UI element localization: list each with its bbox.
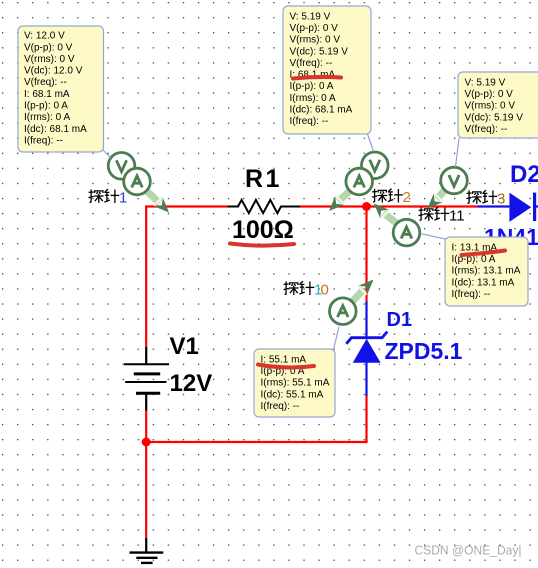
probe 2 V circle <box>362 152 389 179</box>
ground <box>130 538 164 563</box>
measurement box 3 (probe 3 readout) <box>458 72 538 138</box>
svg-text:R1: R1 <box>245 165 282 193</box>
probe 11 label 探针11 <box>419 207 465 224</box>
wire: middle vertical branch (junction down to D1) red part <box>365 205 367 301</box>
svg-text:I(rms): 0 A: I(rms): 0 A <box>290 93 336 104</box>
callout line box4 to probe11 <box>422 234 446 239</box>
measurement box 5 (probe 10 readout) <box>254 349 335 417</box>
probe 2 A circle <box>346 168 373 195</box>
red marker underline (100Ω) <box>230 244 294 246</box>
red marker underline (I: 55.1 mA) <box>258 365 314 368</box>
callout line box5 to probe10 <box>334 327 340 350</box>
battery V1 <box>124 347 169 411</box>
svg-text:I(rms): 13.1 mA: I(rms): 13.1 mA <box>452 266 521 277</box>
svg-text:V(dc): 5.19 V: V(dc): 5.19 V <box>465 112 524 123</box>
svg-text:V(freq): --: V(freq): -- <box>24 77 67 88</box>
svg-text:V(rms): 0 V: V(rms): 0 V <box>290 35 341 46</box>
svg-text:V(p-p): 0 V: V(p-p): 0 V <box>24 42 73 53</box>
D1 cathode bar with zener bends <box>346 332 387 344</box>
svg-text:I(rms): 55.1 mA: I(rms): 55.1 mA <box>261 378 330 389</box>
callout line box3 to probe3 <box>456 138 460 167</box>
svg-text:2: 2 <box>403 189 411 206</box>
svg-text:I(dc): 13.1 mA: I(dc): 13.1 mA <box>452 277 515 288</box>
svg-text:11: 11 <box>449 208 465 225</box>
wire: left vertical rail (top corner down to V1 +) <box>145 205 147 347</box>
svg-text:D2: D2 <box>510 161 538 188</box>
probe 1 V circle <box>108 153 135 180</box>
red marker underline (I: 13.1 mA) <box>462 251 506 256</box>
svg-text:CSDN @ONE_Day|: CSDN @ONE_Day| <box>415 544 522 558</box>
D2 triangle <box>509 193 531 222</box>
callout line box1 to probe1 <box>102 149 111 158</box>
probe 11 (A) arrow <box>374 204 399 225</box>
wire: D1 bottom red part down to bottom rail corner <box>365 396 367 442</box>
svg-text:I(dc): 68.1 mA: I(dc): 68.1 mA <box>24 124 87 135</box>
svg-text:12V: 12V <box>170 370 213 397</box>
svg-text:I(freq): --: I(freq): -- <box>24 136 63 147</box>
measurement box 4 (probe 11 readout) <box>445 237 528 306</box>
wire: V1 minus lead down to ground node <box>145 411 147 538</box>
svg-text:0: 0 <box>321 282 329 299</box>
D2 anode lead <box>477 205 509 207</box>
diode D2 1N4148 <box>477 193 538 222</box>
probe 1 label 探针1 <box>89 189 128 206</box>
svg-text:I(dc): 68.1 mA: I(dc): 68.1 mA <box>290 105 353 116</box>
probe 11 A circle <box>393 219 420 246</box>
wire: junction node to D2 anode <box>367 205 478 207</box>
svg-text:3: 3 <box>497 191 505 208</box>
resistor R1 <box>228 200 301 213</box>
probe 2 label 探针2 <box>372 189 411 206</box>
svg-text:ZPD5.1: ZPD5.1 <box>385 338 463 364</box>
svg-text:100Ω: 100Ω <box>232 216 294 244</box>
probe 3 label 探针3 <box>467 190 506 207</box>
D2 cathode lead <box>535 205 538 207</box>
D2 cathode bar <box>533 193 536 221</box>
wire: top horizontal left segment (node after probe1 to R1) <box>145 205 227 207</box>
svg-text:I: 68.1 mA: I: 68.1 mA <box>24 89 70 100</box>
svg-text:V(freq): --: V(freq): -- <box>290 58 333 69</box>
svg-text:V: 5.19 V: V: 5.19 V <box>290 11 331 22</box>
svg-text:V(dc): 12.0 V: V(dc): 12.0 V <box>24 66 83 77</box>
svg-text:D1: D1 <box>387 309 413 331</box>
svg-text:V(rms): 0 V: V(rms): 0 V <box>465 101 516 112</box>
measurement box 1 (probe 1 readout) <box>18 26 104 152</box>
svg-text:V(dc): 5.19 V: V(dc): 5.19 V <box>290 46 349 57</box>
wire: R1 right lead to junction node <box>300 205 367 207</box>
svg-text:1: 1 <box>119 190 127 207</box>
probe 3 (V) arrow <box>428 188 447 208</box>
junction node at bottom rail <box>142 438 151 447</box>
callout line box2 to probe2 <box>368 134 374 152</box>
svg-text:I(freq): --: I(freq): -- <box>452 289 491 300</box>
probe 1 (V/A) arrow <box>145 189 169 212</box>
svg-text:V1: V1 <box>170 333 199 360</box>
probe 10 (A) arrow <box>351 280 374 304</box>
svg-text:I: 55.1 mA: I: 55.1 mA <box>261 354 307 365</box>
svg-text:V: 12.0 V: V: 12.0 V <box>24 31 65 42</box>
measurement box 2 (probe 2 readout) <box>283 6 371 134</box>
svg-text:I(p-p): 0 A: I(p-p): 0 A <box>24 101 68 112</box>
svg-text:I(dc): 55.1 mA: I(dc): 55.1 mA <box>261 389 324 400</box>
svg-text:I(freq): --: I(freq): -- <box>261 401 300 412</box>
probe 10 A circle <box>330 298 357 325</box>
probe 1 A circle <box>124 168 151 195</box>
zener diode D1 ZPD5.1 <box>346 302 387 397</box>
svg-text:I(p-p): 0 A: I(p-p): 0 A <box>290 81 334 92</box>
svg-text:I(freq): --: I(freq): -- <box>290 116 329 127</box>
probe 10 label 探针10 <box>284 281 329 298</box>
D1 triangle (anode) <box>353 339 381 363</box>
svg-text:V(p-p): 0 V: V(p-p): 0 V <box>465 89 514 100</box>
red marker underline (I: 68.1 mA) <box>293 77 341 79</box>
D1 top lead (blue) <box>365 302 367 337</box>
svg-text:V(p-p): 0 V: V(p-p): 0 V <box>290 23 339 34</box>
svg-text:V(rms): 0 V: V(rms): 0 V <box>24 54 75 65</box>
svg-text:V: 5.19 V: V: 5.19 V <box>465 77 506 88</box>
probe 3 V circle <box>441 167 468 194</box>
probe 2 (A/V) arrow <box>329 189 351 211</box>
wire: bottom horizontal rail <box>146 441 367 443</box>
D1 bottom lead <box>365 363 367 396</box>
svg-text:I(rms): 0 A: I(rms): 0 A <box>24 112 70 123</box>
svg-text:V(freq): --: V(freq): -- <box>465 124 508 135</box>
junction node at probe2 (net 2) <box>362 202 371 211</box>
